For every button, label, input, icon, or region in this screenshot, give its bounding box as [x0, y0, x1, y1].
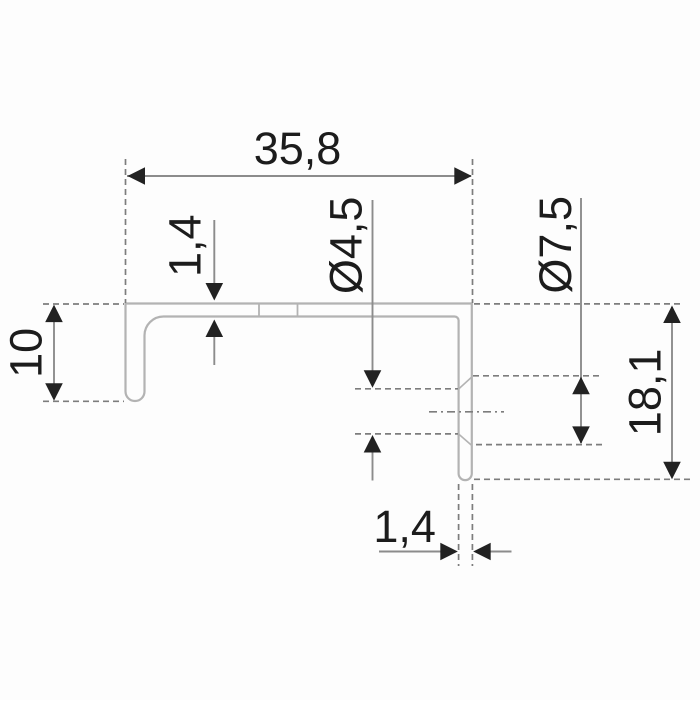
svg-text:Ø7,5: Ø7,5: [530, 196, 581, 294]
dim 1,4 bottom left segment: [379, 551, 444, 553]
extension 10 top: [43, 303, 124, 305]
dim 1,4 bottom right segment: [487, 551, 512, 553]
extension wall outer: [471, 484, 473, 566]
extension wall inner: [458, 484, 460, 566]
svg-text:1,4: 1,4: [160, 214, 211, 277]
dimension line 35,8: [127, 175, 471, 177]
profile outline: [126, 304, 472, 481]
leader line 7,5 with double arrows: [580, 198, 582, 443]
dim line 10: [53, 307, 55, 398]
leader line 4,5 upper with down arrow: [372, 200, 374, 374]
hole 4,5 hidden edge top: [355, 388, 458, 390]
hole 7,5 hidden edge top: [473, 375, 600, 377]
hole centerline: [429, 411, 504, 413]
countersink chamfer lower: [459, 434, 472, 446]
svg-text:1,4: 1,4: [373, 501, 436, 552]
svg-text:Ø4,5: Ø4,5: [321, 197, 372, 295]
hole 7,5 hidden edge bottom: [476, 444, 602, 446]
svg-text:10: 10: [1, 328, 52, 378]
extension line right (35,8): [472, 159, 474, 303]
extension 18,1 top: [474, 303, 681, 305]
extension line left (35,8): [125, 159, 127, 303]
countersink chamfer upper: [459, 377, 472, 389]
dim arrow 1,4 up: [213, 334, 215, 365]
extension 10 bottom: [43, 400, 124, 402]
extension 18,1 bottom: [474, 478, 694, 480]
dim line 18,1: [671, 307, 673, 476]
seam tick 1: [258, 304, 260, 317]
svg-text:35,8: 35,8: [254, 123, 342, 174]
leader line 4,5 lower with up arrow: [372, 449, 374, 481]
hole 4,5 hidden edge bottom: [355, 433, 458, 435]
seam tick 2: [297, 304, 299, 317]
svg-text:18,1: 18,1: [620, 349, 671, 437]
dim arrow 1,4 down: [213, 220, 215, 287]
